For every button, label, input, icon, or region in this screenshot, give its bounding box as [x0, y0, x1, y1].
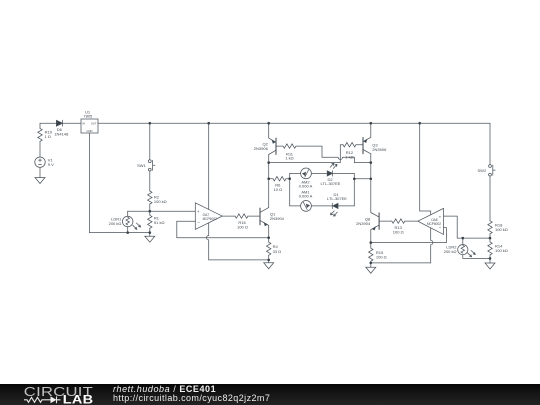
- wire R12 to Q3 base: [356, 144, 363, 146]
- wire Q2 base to R11: [276, 145, 283, 147]
- node rail/Q2 emitter: [267, 122, 270, 125]
- node R6 right bus: [288, 177, 291, 180]
- node R14 bottom ground: [489, 257, 492, 260]
- op-amp OA7 V- pin wire with hop over feedback: [207, 223, 209, 260]
- node Q1 emitter: [267, 236, 270, 239]
- svg-text:33 Ω: 33 Ω: [273, 249, 282, 254]
- wire R13 to OA8 output: [405, 220, 418, 222]
- wire left ammeter bus vertical: [289, 173, 291, 206]
- node A divider left: [149, 210, 152, 213]
- wire OA8 V- to ground node: [371, 262, 431, 264]
- svg-text:+: +: [439, 214, 442, 219]
- svg-text:100 kΩ: 100 kΩ: [495, 248, 508, 253]
- wire node A horizontal LDR1/R1/op-amp + input: [128, 210, 196, 212]
- wire top LED branch left: [290, 172, 301, 174]
- wire Q1 emitter down to node: [268, 225, 270, 242]
- LED D2: [327, 163, 337, 176]
- switch SW1: [148, 160, 155, 171]
- wire main +5V rail: [98, 122, 490, 124]
- op-amp OA8: [418, 208, 444, 234]
- node rail/SW1: [149, 122, 152, 125]
- node Q3 line tee: [370, 178, 373, 181]
- node Q8 emitter: [370, 241, 373, 244]
- wire R2 to node A: [149, 204, 151, 211]
- ammeter AM2: [301, 168, 312, 179]
- transistor Q1: [260, 208, 269, 226]
- wire D2 to right bus: [333, 172, 355, 174]
- svg-text:LTL-307EE: LTL-307EE: [321, 181, 341, 186]
- wire OA8 inverting input feedback loop: [371, 228, 447, 243]
- wire LDR2 top stub: [462, 238, 464, 244]
- resistor R1: [148, 215, 152, 228]
- wire OA7 V- to ground node: [209, 259, 269, 261]
- svg-text:2N3904: 2N3904: [356, 221, 371, 226]
- svg-text:LTL-307EE: LTL-307EE: [327, 196, 347, 201]
- resistor R19: [38, 128, 42, 141]
- wire R18 to node B: [489, 234, 491, 242]
- svg-text:100 Ω: 100 Ω: [237, 225, 248, 230]
- svg-text:100 Ω: 100 Ω: [393, 230, 404, 235]
- wire D1 to right bus: [338, 205, 354, 207]
- wire R4 bottom to ground: [268, 255, 270, 263]
- resistor R13: [392, 219, 405, 223]
- svg-text:OUT: OUT: [91, 122, 97, 126]
- wire SW1 drop from rail: [149, 123, 151, 160]
- node R15 bottom ground: [370, 262, 373, 265]
- wire LDR1 bottom stub: [127, 227, 129, 233]
- node Q3 collector: [370, 161, 373, 164]
- ground below R1: [145, 236, 155, 242]
- node Q2 collector: [267, 161, 270, 164]
- wire LDR2 bottom to R14 ground node: [463, 255, 490, 259]
- logo resistor symbol: [24, 397, 46, 402]
- resistor R11: [283, 144, 296, 148]
- resistor R14: [488, 242, 492, 255]
- op-amp OA8 V- pin wire with hop over feedback: [431, 228, 433, 263]
- resistor R4: [267, 242, 271, 255]
- wire U1 GND down: [89, 133, 91, 233]
- svg-text:1 kΩ: 1 kΩ: [285, 156, 293, 161]
- svg-text:100 kΩ: 100 kΩ: [154, 199, 167, 204]
- svg-text:200 kΩ: 200 kΩ: [109, 221, 122, 226]
- svg-text:−: −: [439, 225, 442, 230]
- wire OA7 output to R16: [222, 215, 235, 217]
- resistor R12: [343, 143, 356, 147]
- svg-text:2N3904: 2N3904: [270, 216, 285, 221]
- wire OA8 non-inverting input to divider node B: [444, 216, 491, 238]
- ground below R15: [366, 267, 376, 273]
- wire R12 to Q2 collector (cross-coupling): [269, 145, 343, 163]
- junction dots: [126, 122, 491, 264]
- node right bus tee: [353, 178, 356, 181]
- wire R14 bottom to ground: [489, 255, 491, 263]
- resistor R18: [488, 221, 492, 234]
- node rail/Q3 emitter: [370, 122, 373, 125]
- wire D6 to U1 IN: [63, 122, 81, 124]
- svg-text:http://circuitlab.com/cyuc82q2: http://circuitlab.com/cyuc82q2jz2m7: [113, 393, 270, 403]
- node R4 bottom ground: [267, 259, 270, 262]
- op-amp OA7 V+ pin wire: [208, 123, 210, 209]
- transistor Q8: [371, 213, 379, 231]
- switch SW2: [489, 165, 496, 176]
- wire R6 left stub: [269, 178, 273, 180]
- wire R11 to Q3 collector (cross-coupling) with hop: [296, 146, 371, 163]
- wire SW2 to R18: [489, 176, 491, 221]
- svg-text:100 kΩ: 100 kΩ: [495, 227, 508, 232]
- wire ground bus U1-GND to LDR1 to R1: [90, 232, 150, 234]
- svg-text:IN: IN: [82, 122, 85, 126]
- LED D1: [331, 203, 339, 216]
- ground below R4: [264, 263, 274, 269]
- node LDR2 top: [462, 237, 465, 240]
- wire OA7 inverting input feedback loop: [177, 221, 269, 238]
- node R1 bottom ground: [149, 231, 152, 234]
- op-amp OA7 plus minus: [197, 209, 200, 225]
- svg-text:200 kΩ: 200 kΩ: [444, 249, 457, 254]
- voltage regulator U1 7805: [81, 119, 98, 133]
- op-amp OA8 plus minus: [439, 214, 442, 230]
- wire right ammeter bus vertical: [353, 173, 355, 206]
- svg-text:+: +: [197, 209, 200, 214]
- label OA8 MCP6002: [427, 218, 441, 226]
- transistor Q3: [363, 137, 371, 153]
- wire AM2 to D2: [311, 172, 327, 174]
- wire Q3 collector down to Q8 collector: [370, 154, 372, 213]
- node rail/OA8 V+: [418, 122, 421, 125]
- wire LDR1 top stub: [127, 211, 129, 216]
- svg-text:9 V: 9 V: [48, 162, 54, 167]
- op-amp OA8 V+ pin wire: [420, 123, 431, 215]
- voltage source V1: [35, 157, 45, 167]
- wire Q8 emitter down to node: [370, 230, 372, 249]
- svg-text:1N4148: 1N4148: [54, 132, 69, 137]
- svg-text:10 Ω: 10 Ω: [274, 187, 283, 192]
- wire Q8 base to R13: [379, 220, 392, 222]
- node R6 left: [267, 177, 270, 180]
- photoresistor LDR2: [458, 245, 476, 257]
- wire right bus tee to Q3 collector line: [354, 178, 371, 180]
- wire AM1 to D1: [311, 205, 332, 207]
- ground below R14: [485, 263, 495, 269]
- svg-text:0.000 A: 0.000 A: [299, 194, 313, 199]
- wire R6 right stub to ammeter bus: [286, 178, 290, 180]
- diode D6: [56, 120, 62, 126]
- transistor Q2: [269, 138, 276, 154]
- resistor R2: [148, 191, 152, 204]
- svg-text:SW1: SW1: [137, 163, 146, 168]
- wire R1 bottom stub: [149, 228, 151, 236]
- node rail/OA7 V+: [207, 122, 210, 125]
- svg-text:2N3906: 2N3906: [254, 146, 269, 151]
- svg-text:1 kΩ: 1 kΩ: [345, 154, 353, 159]
- wire V1 to ground: [39, 167, 41, 177]
- node LDR1 bottom: [126, 231, 129, 234]
- svg-text:100 Ω: 100 Ω: [376, 255, 387, 260]
- resistor R16: [235, 214, 248, 218]
- svg-text:0.000 A: 0.000 A: [299, 183, 313, 188]
- pin labels U1: [82, 122, 97, 133]
- wire Q1 collector up to Q2 collector: [268, 155, 270, 208]
- svg-text:7805: 7805: [83, 114, 93, 119]
- ground below V1: [35, 178, 45, 184]
- wire R15 bottom stub: [370, 261, 372, 267]
- svg-text:51 kΩ: 51 kΩ: [154, 220, 165, 225]
- svg-text:MCP6002: MCP6002: [203, 217, 217, 221]
- label OA7 MCP6002: [203, 213, 217, 221]
- svg-text:1 Ω: 1 Ω: [45, 134, 51, 139]
- op-amp OA7: [195, 203, 222, 230]
- svg-text:−: −: [197, 220, 200, 225]
- wire Q3 emitter stub from rail: [370, 123, 372, 137]
- svg-text:GND: GND: [87, 129, 93, 133]
- resistor R6: [273, 177, 286, 181]
- footer bar: [0, 384, 540, 405]
- wire R1 top stub: [149, 211, 151, 215]
- node B divider right: [489, 237, 492, 240]
- svg-text:LAB: LAB: [63, 393, 94, 405]
- wire top-left corner from V1 branch to D6: [40, 123, 56, 128]
- wire bottom LED branch left: [290, 205, 301, 207]
- ammeter AM1: [301, 201, 312, 212]
- svg-text:2N3906: 2N3906: [372, 147, 387, 152]
- wire R16 to Q1 base: [248, 215, 260, 217]
- svg-text:SW2: SW2: [478, 168, 487, 173]
- wire SW1 to R2: [149, 171, 151, 191]
- wire SW2 drop from rail: [489, 123, 491, 164]
- wire R19 to V1: [39, 141, 41, 157]
- resistor R15: [369, 248, 373, 261]
- photoresistor LDR1: [122, 216, 140, 229]
- logo diode symbol: [46, 396, 61, 403]
- wire Q2 emitter stub from rail: [268, 123, 270, 138]
